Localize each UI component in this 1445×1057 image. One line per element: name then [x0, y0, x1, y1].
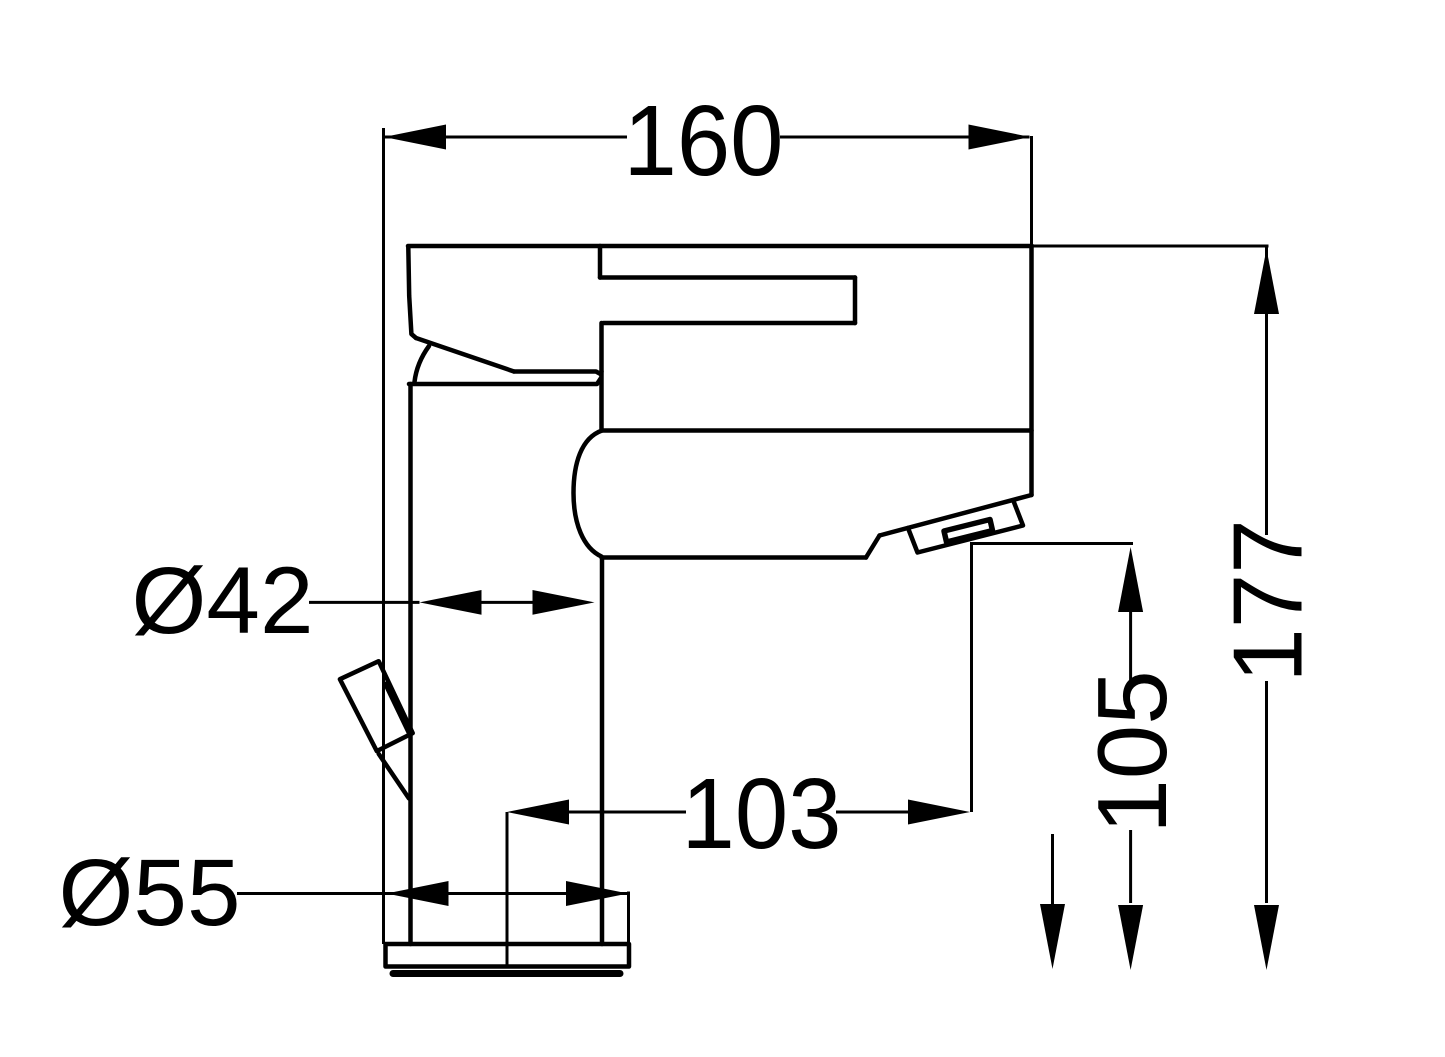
svg-text:105: 105 — [1077, 670, 1187, 834]
dimension line 160 right segment — [780, 136, 1030, 139]
leader line for diameter 42 — [309, 601, 420, 604]
handle bottom edge — [514, 372, 601, 375]
arrowhead 103 left — [507, 800, 569, 825]
neck right vertical — [599, 372, 604, 431]
lever handle body — [340, 661, 413, 751]
arrowhead 177 bottom — [1254, 905, 1279, 970]
arrowhead 103 right — [908, 800, 970, 825]
arrowhead 42 left — [420, 590, 482, 615]
extension line right of 103 — [970, 542, 973, 812]
aerator outer body — [908, 501, 1023, 553]
handle left edge — [408, 247, 416, 338]
dimension line 160 left segment — [385, 136, 627, 139]
reference line surface arrow — [1051, 834, 1054, 905]
extension line top of 177 — [1033, 245, 1269, 248]
arrowhead 105 bottom — [1118, 905, 1143, 970]
base bottom slab — [393, 970, 620, 977]
dimension line 177 lower segment — [1265, 681, 1268, 903]
arrowhead 160 left — [384, 125, 446, 150]
svg-text:Ø55: Ø55 — [59, 840, 241, 946]
lever slot bottom — [604, 321, 856, 326]
column right edge — [600, 558, 605, 945]
handle front lower vertical — [599, 323, 604, 372]
dimension line 42 middle — [481, 601, 533, 604]
spout right edge — [1029, 246, 1034, 495]
handle front upper vertical — [598, 246, 603, 278]
svg-text:103: 103 — [682, 758, 842, 870]
lever handle inner edge — [385, 684, 410, 735]
svg-text:177: 177 — [1213, 519, 1323, 683]
svg-text:Ø42: Ø42 — [132, 548, 314, 654]
body bulge arc — [574, 431, 603, 557]
arrowhead 177 top — [1254, 249, 1279, 314]
handle rear arc — [415, 346, 430, 382]
dimension line 177 upper segment — [1265, 246, 1268, 535]
arrowhead 55 right — [566, 881, 628, 906]
dimension line 105 lower segment — [1129, 830, 1132, 903]
aerator outlet inner — [944, 520, 993, 543]
arrowhead 42 right — [533, 590, 595, 615]
leader line for diameter 55 — [237, 892, 629, 895]
arrowhead surface reference — [1040, 904, 1065, 969]
extension line top of 105 — [972, 542, 1133, 545]
extension line right of 160 — [1030, 136, 1033, 246]
handle bottom diagonal — [416, 338, 514, 372]
arrowhead 55 left — [387, 881, 449, 906]
arrowhead 105 top — [1118, 547, 1143, 612]
svg-text:160: 160 — [624, 85, 784, 197]
dimension line 103 right segment — [836, 811, 908, 814]
extension tick right of base — [627, 892, 630, 967]
extension line left of 103 — [506, 812, 509, 966]
faucet top edge — [408, 244, 1032, 249]
lever slot right end — [853, 278, 858, 324]
arrowhead 160 right — [969, 125, 1031, 150]
bulge bottom edge — [602, 555, 867, 560]
neck top edge — [409, 378, 601, 384]
lever neck diagonal — [379, 754, 409, 799]
base plate outline — [386, 944, 630, 967]
column left edge — [408, 384, 413, 944]
lever slot top — [600, 275, 855, 280]
extension line left (160/base) — [382, 128, 385, 944]
body mid line — [602, 428, 1032, 433]
spout underside step — [866, 536, 880, 558]
dimension line 105 upper segment — [1129, 612, 1132, 680]
spout underside diagonal — [880, 495, 1032, 536]
dimension line 103 left segment — [569, 811, 686, 814]
